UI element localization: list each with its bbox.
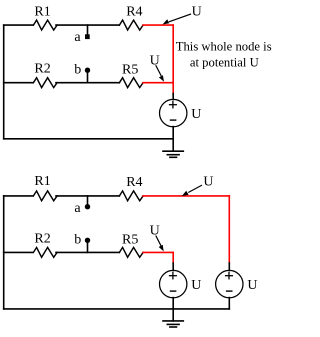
node a: square terminal — [85, 34, 90, 39]
resistor R4 (bottom) — [119, 191, 143, 201]
resistor R1 — [33, 20, 57, 30]
svg-text:R1: R1 — [34, 174, 50, 189]
red node wire: top row R4 long segment — [143, 195, 229, 197]
ground (bottom circuit): stem — [172, 309, 174, 321]
wire: top row, left segment to R1 — [4, 24, 33, 26]
node b: dot terminal — [85, 68, 90, 73]
wire: row2 left segment to R2 — [4, 82, 33, 84]
svg-text:R4: R4 — [126, 5, 142, 20]
svg-text:R2: R2 — [34, 232, 50, 247]
resistor R5 (bottom) — [119, 247, 143, 257]
red node wire: row2 R5 to corner — [143, 251, 173, 253]
svg-text:U: U — [247, 278, 257, 293]
resistor R5 — [119, 78, 143, 88]
wire: top row, segment R1 to R4 — [56, 24, 119, 26]
wire: left vertical (top circuit) — [3, 25, 5, 139]
red node wire: short vertical down to source U1 — [172, 252, 174, 263]
resistor R2 (bottom) — [33, 247, 57, 257]
node b (bottom): stub — [87, 241, 89, 253]
svg-text:a: a — [74, 30, 81, 45]
node a: stub — [87, 25, 89, 35]
svg-text:U: U — [150, 223, 160, 238]
voltage source U2 bottom: plus sign — [226, 273, 233, 279]
voltage source U2 (bottom): top lead — [228, 263, 230, 271]
svg-text:R5: R5 — [122, 63, 138, 78]
svg-text:R2: R2 — [34, 62, 50, 77]
wire: left vertical (bottom circuit) — [3, 196, 5, 309]
wire: row2 segment R2 to R5 — [56, 251, 119, 253]
svg-text:U: U — [203, 175, 213, 190]
node a (bottom): stub — [87, 196, 89, 204]
wire: row2 segment R2 to R5 — [56, 82, 119, 84]
resistor R4 — [119, 20, 143, 30]
node a (bottom): dot terminal — [85, 204, 90, 209]
resistor R1 (bottom) — [33, 191, 57, 201]
voltage source U2 bottom: minus sign — [227, 290, 232, 292]
voltage source U1 (bottom): top lead — [172, 263, 174, 271]
voltage source U1: minus sign — [171, 119, 176, 121]
svg-text:U: U — [191, 278, 201, 293]
voltage source U1 bottom: minus sign — [171, 290, 176, 292]
annotation arrow to R5 red corner (bottom) — [156, 236, 164, 251]
red node wire: top row R4 to corner — [143, 24, 173, 26]
red node wire: right vertical down to source U2 — [228, 196, 230, 263]
voltage source U1 bottom: plus sign — [170, 273, 177, 279]
svg-text:b: b — [74, 62, 81, 77]
svg-text:a: a — [74, 201, 81, 216]
svg-text:U: U — [192, 5, 202, 20]
resistor R2 — [33, 78, 57, 88]
ground (top circuit): bars — [163, 151, 183, 157]
wire: top row, left segment to R1 — [4, 195, 33, 197]
annotation arrow to row2 red junction — [156, 66, 164, 82]
svg-text:U: U — [150, 53, 160, 68]
red node wire: right vertical down to source — [172, 25, 174, 93]
annotation arrow to long red wire (bottom) — [182, 185, 202, 196]
svg-text:R5: R5 — [122, 233, 138, 248]
svg-text:at potential U: at potential U — [190, 55, 259, 69]
wire: row2 left segment to R2 — [4, 251, 33, 253]
node b: stub — [87, 71, 89, 83]
svg-text:b: b — [74, 232, 81, 247]
wire: bottom return wire (bottom circuit) — [4, 308, 230, 310]
voltage source U1: circle — [160, 99, 187, 126]
svg-text:R1: R1 — [34, 4, 50, 19]
voltage source U1: plus sign — [170, 102, 177, 108]
svg-text:R4: R4 — [126, 175, 142, 190]
node b (bottom): dot terminal — [85, 238, 90, 243]
svg-text:This whole node is: This whole node is — [176, 39, 272, 53]
voltage source U2 (bottom): bottom lead — [228, 298, 230, 309]
red node wire: row2 R5 to junction — [143, 82, 173, 84]
wire: bottom return wire — [4, 138, 174, 140]
voltage source U1 bottom: circle — [160, 270, 187, 297]
voltage source U2 bottom: circle — [216, 270, 243, 297]
voltage source U1: bottom lead to ground — [172, 127, 174, 152]
voltage source U1 (bottom): bottom lead — [172, 298, 174, 309]
annotation arrow to top-right red corner — [163, 14, 191, 24]
svg-text:U: U — [191, 107, 201, 122]
ground (bottom circuit): bars — [163, 321, 183, 327]
wire: top row, segment R1 to R4 — [56, 195, 119, 197]
voltage source U1: top lead — [172, 94, 174, 100]
